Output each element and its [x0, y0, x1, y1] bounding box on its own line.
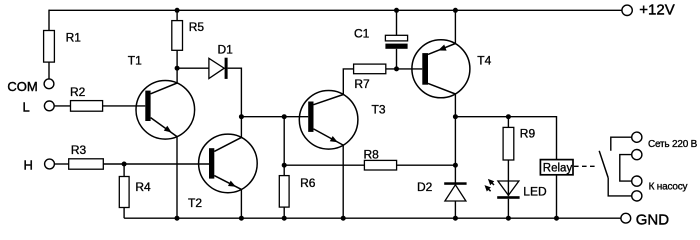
wire R7 to T4 base	[386, 68, 423, 70]
wire T3 emitter down	[342, 145, 344, 218]
terminal GND	[621, 213, 631, 223]
terminal COM	[44, 79, 54, 89]
wire R8 to D2 net	[397, 164, 456, 166]
junction R6 / R8 net	[282, 163, 287, 168]
svg-text:К насосу: К насосу	[649, 181, 688, 192]
wire contact 2 to contact 3	[620, 155, 632, 182]
svg-text:D1: D1	[218, 43, 234, 57]
terminal H	[45, 159, 55, 169]
terminal contact 3 (насос)	[632, 176, 642, 186]
wire R6 to GND rail	[283, 207, 285, 218]
junction GND rail / R6	[282, 216, 287, 221]
svg-text:+12V: +12V	[639, 1, 674, 18]
transistor T3	[299, 91, 358, 150]
svg-text:R2: R2	[70, 85, 86, 99]
transistor T2	[199, 134, 258, 193]
svg-text:R6: R6	[300, 176, 316, 190]
svg-text:LED: LED	[523, 185, 547, 199]
wire mid rail to T3 base	[241, 116, 308, 118]
resistor R8	[364, 160, 396, 170]
transistor T4	[412, 40, 470, 98]
wire R5 top	[176, 10, 178, 20]
wire R2 to T1 base	[103, 105, 146, 107]
junction GND rail / T3 emitter	[341, 216, 346, 221]
svg-text:C1: C1	[354, 26, 370, 40]
switch lever	[599, 151, 608, 178]
junction GND rail / T1 emitter	[175, 216, 180, 221]
wire +12V rail (top)	[49, 9, 622, 11]
wire L to R2	[54, 105, 70, 107]
wire GND rail (bottom)	[124, 217, 621, 219]
terminal +12V	[622, 5, 632, 15]
wire H to R3	[54, 163, 68, 165]
wire R9 top	[507, 117, 509, 128]
svg-text:R3: R3	[71, 143, 87, 157]
svg-text:R1: R1	[66, 31, 82, 45]
capacitor C1	[385, 35, 407, 49]
junction D1 net / mid rail	[239, 114, 244, 119]
junction GND rail / LED	[506, 216, 511, 221]
svg-text:T4: T4	[477, 53, 491, 67]
resistor R3	[69, 159, 104, 169]
junction H net / R4	[122, 162, 127, 167]
terminal contact 2	[632, 150, 642, 160]
svg-text:R8: R8	[364, 148, 380, 162]
junction top rail / R5	[175, 8, 180, 13]
svg-text:Relay: Relay	[543, 162, 573, 174]
junction GND rail / D2	[453, 216, 458, 221]
wire R5 bottom	[176, 50, 178, 68]
terminal contact 4	[632, 191, 642, 201]
resistor R5	[172, 21, 183, 51]
wire common to contact 4	[608, 178, 632, 196]
wire C1 bottom	[396, 49, 398, 69]
svg-text:T2: T2	[188, 196, 202, 210]
svg-text:T3: T3	[372, 103, 386, 117]
svg-text:D2: D2	[417, 180, 433, 194]
svg-text:GND: GND	[636, 211, 670, 228]
junction mid rail / R6	[282, 114, 287, 119]
wire R6 top	[283, 117, 285, 176]
wire D2 anode to GND rail	[454, 201, 456, 218]
svg-text:R9: R9	[520, 127, 536, 141]
relay K1	[540, 160, 573, 175]
terminal contact 1 (Сеть)	[632, 132, 642, 142]
wire R1 to COM	[48, 62, 50, 79]
junction relay net / R9	[506, 114, 511, 119]
wire T2 emitter down	[240, 189, 242, 218]
wire rail to T4 emitter	[454, 10, 456, 44]
svg-text:T1: T1	[128, 54, 142, 68]
wire T1 emitter down	[176, 137, 178, 219]
LED D3	[497, 181, 519, 199]
junction T4 collector / relay net	[453, 114, 458, 119]
diode D1	[209, 58, 228, 79]
terminal L	[44, 101, 54, 111]
junction T4 collector / R8 net	[453, 163, 458, 168]
junction R5 / T1 collector / D1	[175, 66, 180, 71]
junction top rail / T4 emitter	[453, 8, 458, 13]
junction GND rail / T2 emitter	[239, 216, 244, 221]
wire T4 collector down	[454, 94, 456, 183]
resistor R4	[119, 177, 129, 208]
svg-text:L: L	[23, 99, 30, 114]
relay actuation dashed link	[574, 165, 598, 167]
svg-text:R4: R4	[135, 180, 151, 194]
svg-text:COM: COM	[7, 79, 37, 94]
wire LED to GND rail	[507, 199, 509, 218]
wire C1 top	[396, 10, 398, 35]
wire rail to R1	[48, 10, 50, 31]
wire R4 to GND rail	[123, 208, 125, 219]
wire T4 collector to relay	[455, 117, 556, 160]
wire R4 top	[123, 164, 125, 177]
resistor R6	[279, 176, 289, 208]
wire R3 to T2 base	[103, 163, 209, 165]
LED light arrows	[485, 179, 495, 192]
wire relay to GND rail	[556, 175, 558, 218]
wire T3 collector to R7	[343, 69, 353, 95]
svg-text:R5: R5	[189, 20, 205, 34]
wire T1 collector to D1 anode	[177, 67, 209, 69]
diode D2	[444, 182, 466, 201]
wire T1 collector up	[176, 68, 178, 83]
junction top rail / C1	[394, 8, 399, 13]
wire D1 cathode to T2 collector	[228, 68, 242, 137]
resistor R2	[71, 101, 103, 112]
wire R9 to LED	[507, 160, 509, 181]
svg-text:H: H	[24, 158, 33, 173]
junction R7 net / C1	[394, 66, 399, 71]
junction GND rail / relay coil	[554, 216, 559, 221]
resistor R9	[503, 127, 514, 160]
wire R6 to R8	[284, 164, 364, 166]
resistor R1	[44, 31, 55, 63]
wire contact 1 stub	[611, 137, 632, 151]
resistor R7	[354, 64, 386, 74]
transistor T1	[136, 81, 195, 140]
svg-text:Сеть 220 В: Сеть 220 В	[648, 139, 698, 150]
svg-text:R7: R7	[354, 77, 370, 91]
